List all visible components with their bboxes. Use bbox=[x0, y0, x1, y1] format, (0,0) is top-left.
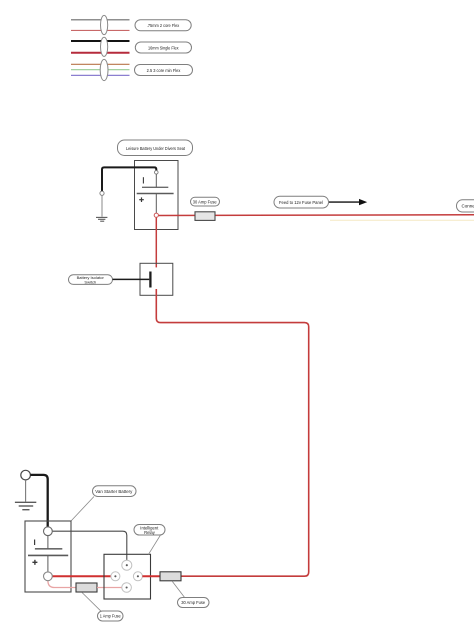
legend wire dark red (16mm single) bbox=[71, 52, 130, 54]
node ground connection bbox=[100, 191, 104, 195]
battery B2 negative plate bbox=[35, 548, 62, 550]
ground G2 bbox=[15, 502, 36, 509]
node leisure positive terminal bbox=[154, 213, 158, 217]
leader line van battery label bbox=[71, 497, 94, 522]
legend oval 3 bbox=[100, 59, 108, 80]
legend wire purple (2.5 3 core) bbox=[71, 74, 130, 76]
svg-text:Van Starter Battery: Van Starter Battery bbox=[95, 489, 133, 494]
relay K1 terminal bottom bbox=[122, 583, 132, 593]
svg-text:Leisure Battery Under Divers S: Leisure Battery Under Divers Seat bbox=[126, 146, 186, 152]
label 30 Amp Fuse (bottom) bbox=[178, 598, 210, 608]
wire battery B1 internal bottom bbox=[155, 194, 157, 214]
wire faint yellow bbox=[330, 219, 474, 221]
svg-text:Switch: Switch bbox=[84, 279, 96, 284]
legend label 2.5 3 core min Flex bbox=[135, 65, 193, 76]
relay K1 terminal top bbox=[122, 560, 132, 570]
label Van Starter Battery bbox=[93, 486, 137, 497]
label Battery Isolator Switch bbox=[69, 275, 113, 285]
svg-text:.75mm 2 core Flex: .75mm 2 core Flex bbox=[147, 23, 180, 28]
legend label .75mm 2 core Flex bbox=[135, 20, 191, 31]
battery B1 leisure box bbox=[135, 161, 179, 230]
legend label 16mm Single Flex bbox=[135, 42, 191, 53]
wire red battery to isolator bbox=[155, 217, 157, 268]
label 30 Amp Fuse (top) bbox=[191, 197, 220, 206]
wire pink fuse to relay bbox=[97, 587, 122, 589]
wire battery B1 internal top bbox=[155, 174, 157, 187]
battery B2 minus mark bbox=[34, 540, 36, 546]
relay K1 terminal left bbox=[111, 572, 120, 581]
svg-text:2.5 3 core min Flex: 2.5 3 core min Flex bbox=[147, 68, 181, 73]
wire gray to ground bbox=[101, 195, 103, 216]
battery B2 plus mark bbox=[32, 560, 37, 565]
label Intelligent Relay bbox=[134, 525, 165, 536]
label Leisure Battery Under Divers Seat bbox=[118, 140, 193, 156]
label Feed to 12v Fuse Panel bbox=[274, 196, 329, 208]
battery B1 negative plate bbox=[142, 186, 168, 188]
battery B1 minus mark bbox=[142, 177, 144, 183]
legend wire gray (.75mm 2 core) bbox=[71, 19, 130, 21]
fuse F2 1 Amp bbox=[76, 583, 97, 592]
wire black van battery negative bbox=[30, 475, 47, 527]
node van positive terminal bbox=[44, 572, 53, 581]
leader line 30 amp fuse label bbox=[172, 581, 185, 598]
battery B1 plus mark bbox=[139, 197, 144, 202]
svg-text:Connect to: Connect to bbox=[462, 203, 474, 208]
battery B2 van starter box bbox=[25, 521, 71, 592]
svg-text:Relay: Relay bbox=[144, 530, 156, 535]
ground G1 bbox=[96, 217, 107, 221]
battery B1 positive plate bbox=[137, 193, 174, 195]
svg-text:16mm Single Flex: 16mm Single Flex bbox=[148, 45, 179, 50]
wire gray van negative to relay bbox=[52, 531, 127, 560]
wire red isolator to relay fuse bbox=[156, 289, 308, 576]
legend wire red (.75mm 2 core) bbox=[71, 29, 130, 31]
wire battery B2 internal top bbox=[47, 536, 49, 549]
relay K1 intelligent relay box bbox=[104, 554, 151, 599]
arrow feed direction bbox=[329, 199, 367, 205]
fuse F3 30 Amp bbox=[160, 572, 181, 581]
fuse F1 30 Amp bbox=[195, 212, 215, 221]
legend wire black (16mm single) bbox=[71, 40, 130, 42]
wire gray to ground van bbox=[25, 480, 27, 502]
wire black label to switch bbox=[113, 278, 150, 280]
wire pink van positive to 1 amp fuse bbox=[48, 581, 76, 588]
switch S1 contact bar bbox=[149, 272, 151, 288]
legend oval 1 bbox=[101, 15, 108, 34]
label 1 Amp Fuse bbox=[98, 611, 124, 621]
relay K1 terminal right bbox=[133, 572, 142, 581]
legend wire green (2.5 3 core) bbox=[71, 69, 130, 71]
switch S1 isolator box bbox=[140, 263, 173, 295]
battery B2 positive plate bbox=[28, 554, 68, 556]
svg-text:1 Amp Fuse: 1 Amp Fuse bbox=[100, 614, 122, 619]
node chassis ground van bbox=[21, 470, 31, 480]
svg-text:30 Amp Fuse: 30 Amp Fuse bbox=[181, 600, 205, 605]
wire battery B2 internal bottom bbox=[47, 555, 49, 572]
label Connect (cut off at edge) bbox=[457, 200, 474, 212]
leader line 1 amp fuse label bbox=[82, 593, 101, 612]
node van negative terminal bbox=[44, 527, 53, 536]
wire red feed to 12v panel bbox=[157, 214, 474, 217]
svg-text:Feed to 12v Fuse Panel: Feed to 12v Fuse Panel bbox=[279, 200, 323, 205]
legend wire brown (2.5 3 core) bbox=[71, 63, 130, 65]
wire red van positive to relay bbox=[52, 575, 111, 577]
leader line intelligent relay label bbox=[149, 535, 161, 554]
node leisure negative terminal bbox=[155, 171, 159, 175]
legend oval 2 bbox=[101, 37, 108, 56]
wire red relay to 30 amp fuse bbox=[142, 575, 160, 577]
svg-text:30 Amp Fuse: 30 Amp Fuse bbox=[193, 199, 217, 204]
wire black negative leisure battery to ground bbox=[102, 167, 156, 191]
